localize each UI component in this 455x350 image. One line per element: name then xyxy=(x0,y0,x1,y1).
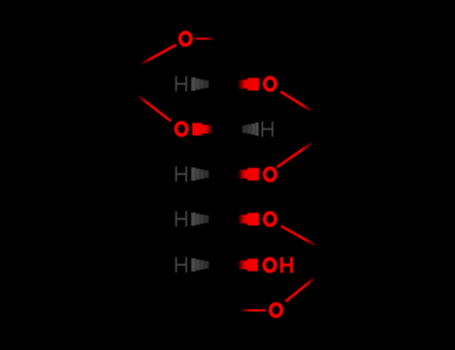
wire O5-CH2c (ring C methylene) xyxy=(281,226,315,245)
oxygen O4 (ring B dioxane, on C4) xyxy=(265,168,276,180)
oxygen O3 (ring B dioxane, on C2) xyxy=(265,78,276,90)
wedge bond C3-O2 xyxy=(192,123,212,136)
hash bond C2-H xyxy=(191,78,209,91)
wire O4-CH2b (ring B methylene) xyxy=(277,143,312,167)
hydrogen H on C3 xyxy=(262,121,274,136)
wire O1-C1 xyxy=(196,38,214,40)
wedge bond C5-O5 xyxy=(239,213,260,226)
wedge bond C6-OH xyxy=(239,259,258,272)
wire C7-O6 xyxy=(242,309,266,311)
hash bond C6-H xyxy=(191,258,209,271)
oxygen O6 (ring C dioxane, on C7) xyxy=(271,304,282,316)
hash bond C3-H xyxy=(242,123,258,136)
hydroxyl H of OH on C6 xyxy=(280,257,293,273)
hydroxyl O of OH on C6 xyxy=(264,259,275,271)
wire O3-CH2b (ring B methylene) xyxy=(281,92,312,111)
wire O2-CH2a (ring A methylene) xyxy=(138,96,171,121)
oxygen O1 (ring A dioxane, on C1) xyxy=(180,33,191,45)
hash bond C4-H xyxy=(191,168,209,181)
hydrogen H on C5 xyxy=(175,211,187,226)
oxygen O2 (ring A dioxane, on C3) xyxy=(176,123,187,135)
wire O6-CH2c (ring C methylene) xyxy=(286,278,315,301)
hydrogen H on C2 xyxy=(175,76,187,91)
hydrogen H on C6 xyxy=(175,257,187,272)
wedge bond C2-O3 xyxy=(239,78,260,91)
hydrogen H on C4 xyxy=(175,166,187,181)
hash bond C5-H xyxy=(191,213,209,226)
wedge bond C4-O4 xyxy=(239,168,260,181)
wire O1-CH2a (ring A methylene) xyxy=(141,45,176,64)
oxygen O5 (ring C dioxane, on C5) xyxy=(265,213,276,225)
